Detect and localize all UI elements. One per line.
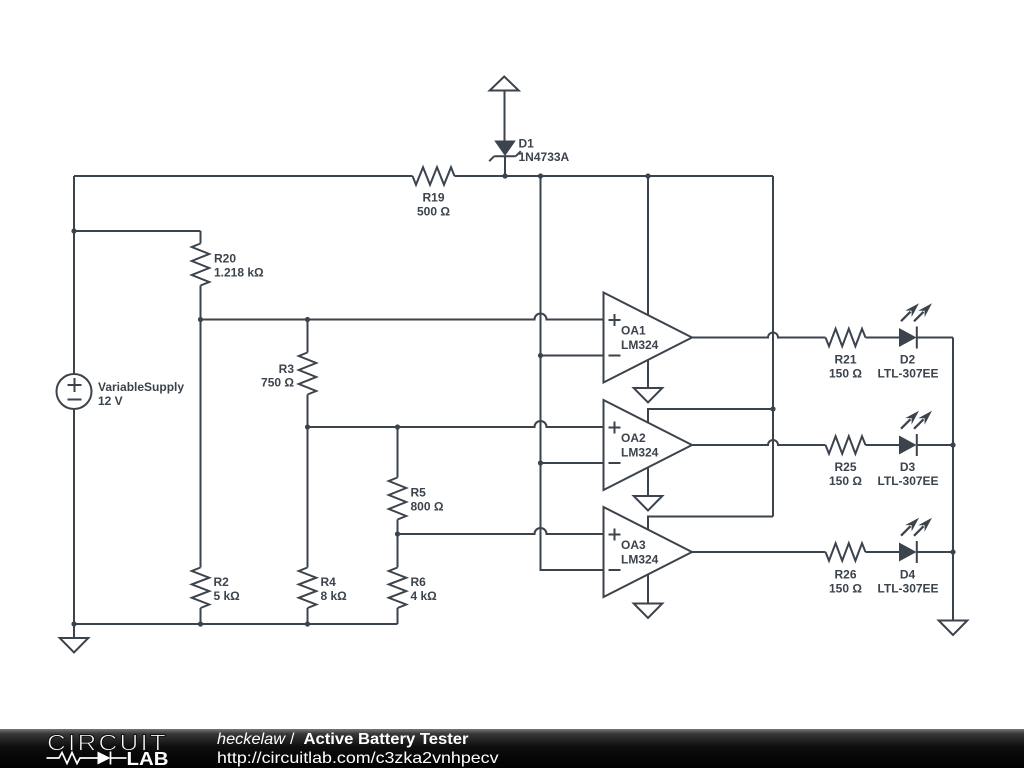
wire OA3 output bbox=[692, 551, 826, 553]
logo squiggle resistor and diode bbox=[47, 752, 127, 765]
svg-text:800 Ω: 800 Ω bbox=[411, 500, 444, 514]
op-amp OA2 bbox=[604, 400, 693, 490]
label OA2 bbox=[621, 431, 659, 460]
node D1 rail bbox=[502, 173, 507, 178]
label OA1 bbox=[621, 324, 659, 353]
label R6 bbox=[411, 575, 438, 603]
wire left rail upper bbox=[73, 176, 75, 374]
node R4 bottom bbox=[305, 621, 310, 626]
wire D4 to right rail bbox=[917, 551, 953, 553]
wire D2 to right rail bbox=[917, 337, 953, 339]
wire OA2 minus input bbox=[541, 462, 604, 464]
svg-text:Active Battery Tester: Active Battery Tester bbox=[304, 731, 469, 748]
footer bar bbox=[0, 729, 1024, 768]
node OA1 Vplus rail bbox=[645, 173, 650, 178]
svg-text:http://circuitlab.com/c3zka2vn: http://circuitlab.com/c3zka2vnhpecv bbox=[217, 750, 499, 767]
footer title bbox=[217, 731, 499, 767]
wire D3 to right rail bbox=[917, 444, 953, 446]
ground right rail bbox=[939, 621, 968, 636]
svg-text:750 Ω: 750 Ω bbox=[261, 376, 294, 390]
svg-text:VariableSupply: VariableSupply bbox=[98, 380, 184, 394]
wire R25 to D3 bbox=[866, 444, 900, 446]
node R5 R6 row3 bbox=[395, 531, 400, 536]
wire right rail bbox=[952, 338, 954, 621]
node R5 top row2 bbox=[395, 424, 400, 429]
node dots bbox=[71, 173, 955, 626]
label R4 bbox=[321, 575, 348, 603]
ground OA3 bbox=[634, 604, 663, 619]
svg-text:OA3: OA3 bbox=[621, 538, 646, 552]
wire divider row 3 to OA3 plus input bbox=[398, 528, 604, 534]
wire OA2 output bbox=[692, 440, 826, 445]
svg-text:500 Ω: 500 Ω bbox=[417, 205, 450, 219]
label D3 bbox=[877, 460, 938, 488]
svg-text:R2: R2 bbox=[214, 575, 230, 589]
wire OA2 Vminus pin bbox=[647, 468, 649, 497]
wire R20 to R2 bbox=[200, 320, 202, 568]
node R3 top row1 bbox=[305, 317, 310, 322]
wire OA1 output bbox=[692, 333, 826, 338]
wire OA1 Vplus pin bbox=[647, 176, 649, 316]
label VariableSupply bbox=[98, 380, 184, 408]
svg-text:/: / bbox=[290, 731, 295, 748]
wire left rail lower bbox=[73, 409, 75, 638]
label R20 bbox=[214, 252, 264, 280]
LED D3 bbox=[899, 411, 932, 456]
svg-text:LTL-307EE: LTL-307EE bbox=[877, 581, 938, 595]
svg-text:R26: R26 bbox=[834, 567, 856, 581]
svg-text:LM324: LM324 bbox=[621, 553, 659, 567]
svg-text:R19: R19 bbox=[422, 190, 444, 204]
svg-text:heckelaw: heckelaw bbox=[217, 731, 286, 748]
wire Vplus feed vertical bbox=[772, 176, 774, 517]
svg-text:R5: R5 bbox=[411, 486, 427, 500]
label R2 bbox=[214, 575, 241, 603]
node right rail D3 bbox=[950, 442, 955, 447]
wire OA3 Vminus pin bbox=[647, 575, 649, 604]
wire bottom bbox=[74, 623, 398, 625]
wire to R20 bbox=[74, 230, 201, 232]
wire R3 to R4 bbox=[307, 427, 309, 568]
wire top rail right bbox=[455, 175, 774, 177]
svg-text:R3: R3 bbox=[279, 362, 295, 376]
resistor R4 bbox=[299, 568, 317, 625]
svg-text:5 kΩ: 5 kΩ bbox=[214, 589, 241, 603]
svg-text:OA1: OA1 bbox=[621, 324, 646, 338]
svg-text:D1: D1 bbox=[519, 137, 535, 151]
zener diode D1 bbox=[489, 141, 521, 177]
power terminal arrow bbox=[490, 77, 519, 91]
resistor R26 bbox=[826, 543, 866, 561]
wire divider row 1 to OA1 plus input bbox=[201, 314, 604, 320]
label R21 bbox=[829, 353, 862, 381]
wire OA2 Vplus pin bbox=[648, 409, 773, 423]
svg-text:OA2: OA2 bbox=[621, 431, 646, 445]
wire R21 to D2 bbox=[866, 337, 900, 339]
label OA3 bbox=[621, 538, 659, 567]
wire terminal to D1 bbox=[504, 91, 506, 141]
wire OA3 Vplus pin bbox=[648, 517, 773, 530]
node left rail R20 bbox=[71, 228, 76, 233]
LED D4 bbox=[899, 518, 932, 563]
svg-text:R6: R6 bbox=[411, 575, 427, 589]
LED D2 bbox=[899, 303, 932, 348]
svg-text:1.218 kΩ: 1.218 kΩ bbox=[214, 265, 264, 279]
svg-text:D3: D3 bbox=[900, 460, 916, 474]
svg-text:R20: R20 bbox=[214, 252, 236, 266]
label R5 bbox=[411, 486, 444, 514]
label R3 bbox=[261, 362, 294, 390]
resistor R6 bbox=[389, 534, 407, 624]
svg-text:LAB: LAB bbox=[127, 748, 169, 768]
node left rail bottom bbox=[71, 621, 76, 626]
resistor R20 bbox=[192, 231, 210, 320]
svg-text:12 V: 12 V bbox=[98, 394, 123, 408]
svg-text:4 kΩ: 4 kΩ bbox=[411, 589, 438, 603]
label R25 bbox=[829, 460, 862, 488]
svg-text:150 Ω: 150 Ω bbox=[829, 367, 862, 381]
label D2 bbox=[877, 353, 938, 381]
resistor R19 bbox=[413, 167, 455, 185]
node ref OA1 minus bbox=[538, 353, 543, 358]
resistor R3 bbox=[299, 320, 317, 428]
node ref OA2 minus bbox=[538, 460, 543, 465]
node R3 R4 row2 bbox=[305, 424, 310, 429]
label R19 bbox=[417, 190, 450, 218]
node right rail D4 bbox=[950, 549, 955, 554]
node ref net rail bbox=[538, 173, 543, 178]
svg-text:D2: D2 bbox=[900, 353, 916, 367]
svg-text:150 Ω: 150 Ω bbox=[829, 581, 862, 595]
wire OA1 Vminus pin bbox=[647, 360, 649, 389]
wire R26 to D4 bbox=[866, 551, 900, 553]
resistor R25 bbox=[826, 436, 866, 454]
voltage source V1 VariableSupply bbox=[57, 374, 92, 409]
svg-text:R21: R21 bbox=[834, 353, 856, 367]
svg-text:LTL-307EE: LTL-307EE bbox=[877, 474, 938, 488]
op-amp OA1 bbox=[604, 293, 693, 383]
svg-text:8 kΩ: 8 kΩ bbox=[321, 589, 348, 603]
wire top rail left bbox=[74, 175, 413, 177]
node R20 R2 row1 bbox=[198, 317, 203, 322]
op-amp OA3 bbox=[604, 507, 693, 597]
resistor R21 bbox=[826, 329, 866, 347]
ground bottom left bbox=[60, 638, 89, 653]
svg-text:150 Ω: 150 Ω bbox=[829, 474, 862, 488]
wire reference vertical net bbox=[541, 176, 604, 570]
ground OA2 bbox=[634, 496, 663, 511]
resistor R2 bbox=[192, 568, 210, 625]
svg-text:LTL-307EE: LTL-307EE bbox=[877, 367, 938, 381]
node R2 bottom bbox=[198, 621, 203, 626]
svg-text:LM324: LM324 bbox=[621, 338, 659, 352]
resistor R5 bbox=[389, 427, 407, 534]
svg-text:R25: R25 bbox=[834, 460, 856, 474]
svg-text:LM324: LM324 bbox=[621, 446, 659, 460]
node Vplus feed OA2 bbox=[770, 406, 775, 411]
svg-text:1N4733A: 1N4733A bbox=[519, 150, 570, 164]
svg-text:D4: D4 bbox=[900, 567, 916, 581]
svg-text:R4: R4 bbox=[321, 575, 337, 589]
wire OA1 minus input bbox=[541, 355, 604, 357]
label D4 bbox=[877, 567, 938, 595]
wire divider row 2 to OA2 plus input bbox=[308, 421, 604, 427]
CircuitLab logo bbox=[47, 730, 169, 768]
label D1 bbox=[519, 137, 570, 164]
ground OA1 bbox=[634, 388, 663, 403]
label R26 bbox=[829, 567, 862, 595]
